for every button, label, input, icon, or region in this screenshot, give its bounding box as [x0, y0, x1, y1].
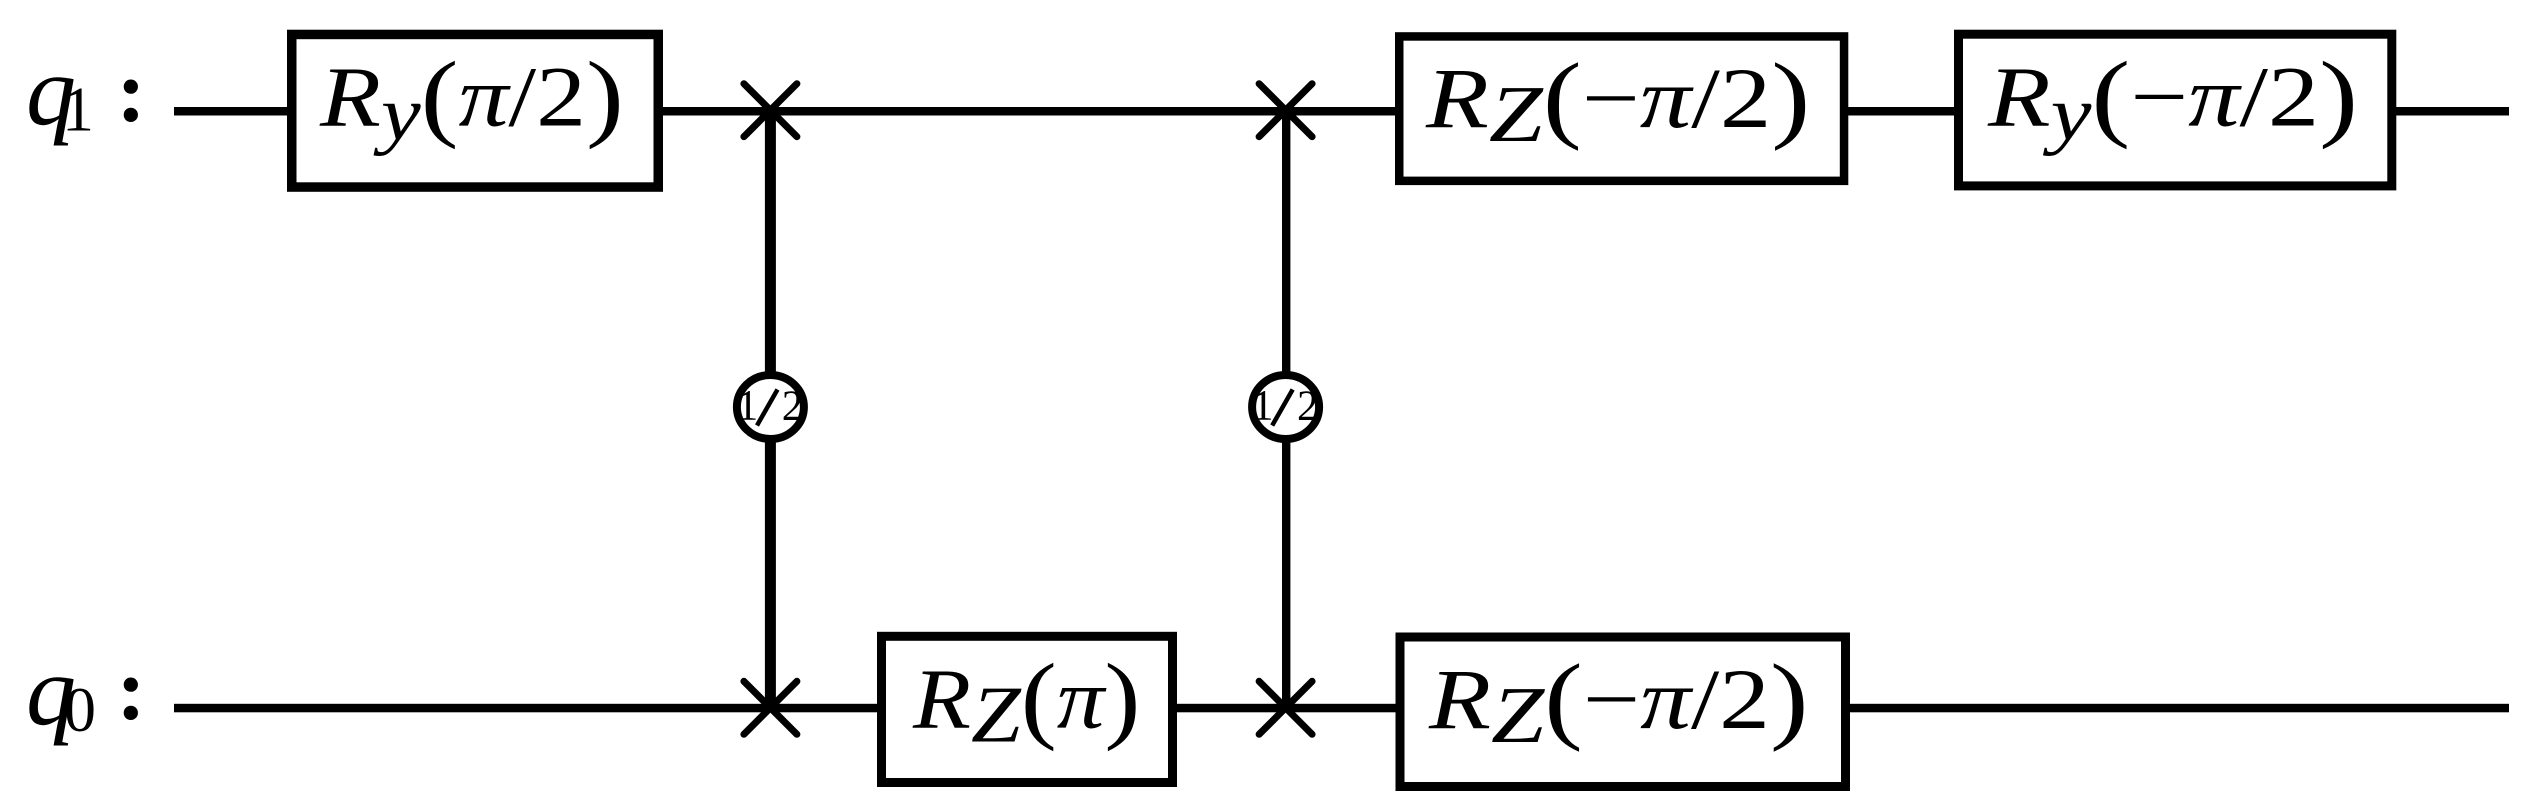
svg-text:2: 2: [782, 383, 804, 430]
wire q0 segment 1: [174, 704, 878, 713]
wire q1 segment 2: [663, 107, 1396, 116]
svg-text:1: 1: [737, 383, 759, 430]
swap cross X2 on q0: [1259, 681, 1312, 734]
qubit label q0: [26, 636, 146, 747]
svg-text::: :: [117, 642, 146, 739]
svg-text:RZ(−π/2): RZ(−π/2): [1428, 644, 1809, 760]
wire q0 segment 3: [1850, 704, 2509, 713]
gate box RZ(-pi/2) on q1: [1399, 36, 1844, 180]
vertical connector column 1: [765, 110, 776, 708]
qubit label q1: [26, 36, 146, 147]
svg-text:2: 2: [1297, 383, 1319, 430]
svg-text::: :: [117, 44, 146, 141]
wire q1 segment 1: [174, 107, 288, 116]
svg-text:0: 0: [64, 674, 96, 745]
svg-text:1: 1: [62, 74, 94, 145]
swap cross X1 on q1: [744, 84, 797, 137]
svg-text:Ry(π/2): Ry(π/2): [319, 41, 624, 157]
swap cross X1 on q0: [744, 681, 797, 734]
gate box RZ(-pi/2) on q0: [1400, 637, 1846, 787]
wire q1 segment 3: [1848, 107, 1955, 116]
sqrt-swap control circle 1/2 column 2: [1252, 375, 1319, 439]
wire q0 segment 2: [1177, 704, 1396, 713]
gate box Ry(-pi/2) on q1: [1959, 34, 2392, 186]
gate box RZ(pi) on q0: [882, 636, 1173, 782]
svg-text:RZ(−π/2): RZ(−π/2): [1425, 44, 1810, 159]
svg-text:RZ(π): RZ(π): [912, 644, 1140, 759]
gate box Ry(pi/2) on q1: [292, 34, 659, 187]
vertical connector column 2: [1282, 110, 1290, 708]
sqrt-swap control circle 1/2 column 1: [737, 375, 804, 439]
swap cross X2 on q1: [1259, 84, 1312, 137]
wire q1 segment 4: [2396, 107, 2509, 116]
svg-text:Ry(−π/2): Ry(−π/2): [1987, 42, 2358, 157]
svg-text:1: 1: [1252, 383, 1274, 430]
